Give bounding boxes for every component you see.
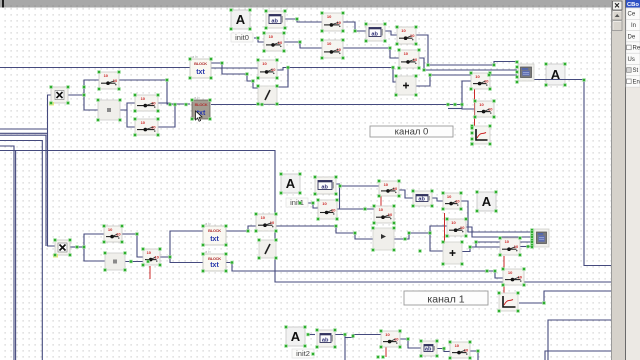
block X2 (input X)	[53, 239, 71, 258]
svg-text:a b: a b	[194, 95, 200, 100]
svg-text:10: 10	[505, 239, 510, 244]
block S2 (switch)	[321, 12, 345, 33]
block W3 (plot window)	[518, 64, 534, 81]
block D2 (divide)	[258, 239, 278, 260]
block Sk (switch)	[449, 341, 472, 360]
wire EQ1 to SWB	[120, 103, 135, 110]
block SWA (switch)	[98, 71, 121, 91]
svg-text:10: 10	[475, 74, 480, 79]
wire feedback corner y129	[0, 128, 48, 130]
block W6 (text-window)	[420, 340, 439, 358]
block X1 (input X)	[49, 86, 69, 106]
svg-text:10: 10	[447, 194, 452, 199]
wire Sc to W4	[399, 190, 413, 198]
block BTsel (BLOCK txt)	[191, 95, 212, 120]
wire Sk out down	[470, 351, 478, 360]
svg-text:ab: ab	[321, 185, 328, 191]
block SWB (switch)	[134, 94, 160, 113]
block SWG (switch)	[103, 225, 124, 244]
wire S4 to plot bus top	[416, 35, 517, 65]
svg-text:A: A	[286, 176, 296, 191]
wire feedback v x47	[48, 95, 56, 246]
block S1 (switch)	[263, 32, 286, 53]
wire X2 out	[70, 246, 84, 248]
svg-text:10: 10	[404, 51, 409, 56]
wire X1 out	[68, 80, 99, 95]
svg-text:10: 10	[262, 61, 267, 66]
wire BT3 to Si	[226, 226, 256, 231]
label init1	[286, 198, 308, 207]
svg-text:ab: ab	[322, 338, 329, 344]
block S4 (switch)	[396, 26, 418, 46]
wire SWH branch to BT4	[170, 257, 203, 263]
svg-text:Ce: Ce	[628, 12, 636, 18]
block SWC (switch)	[134, 118, 160, 137]
wire SWG out	[122, 234, 143, 257]
wire feedback loop b	[0, 141, 42, 360]
label init0	[231, 33, 253, 42]
svg-text:BLOCK: BLOCK	[195, 102, 208, 107]
svg-text:De: De	[628, 34, 636, 40]
wire B2 branch to Sc	[340, 185, 380, 187]
svg-text:10: 10	[508, 270, 513, 275]
wire X1 branch to EQ1	[84, 95, 98, 110]
svg-text:BLOCK: BLOCK	[194, 61, 207, 66]
wire red Sc to Sd	[380, 196, 382, 206]
wire main bus ch0	[211, 104, 462, 106]
block small partial	[477, 292, 487, 305]
svg-text:ab: ab	[371, 32, 378, 38]
wire bus3 branch	[476, 242, 532, 247]
wire bus to SWE	[462, 105, 475, 110]
wire SWH out to BT3	[160, 231, 203, 257]
block S5 (switch)	[398, 49, 421, 70]
svg-text:10: 10	[104, 73, 109, 78]
label kanal0	[370, 126, 453, 137]
scrollbar up arrow	[613, 11, 623, 20]
wire X2 to EQ2	[84, 247, 105, 261]
block P1 (sum)	[395, 75, 418, 97]
wire bottom bus a	[548, 320, 612, 360]
svg-text:ab: ab	[271, 19, 278, 25]
wire sum to plot bus low	[416, 75, 517, 86]
node handles W5 ports	[531, 229, 534, 247]
svg-text:10: 10	[479, 102, 484, 107]
close button	[613, 1, 623, 10]
svg-text:10: 10	[384, 182, 389, 187]
wire BB to sum2	[430, 233, 443, 251]
label kanal1	[404, 291, 488, 305]
svg-text:A: A	[236, 12, 246, 27]
mouse cursor	[196, 111, 203, 121]
wire B3 in stub	[308, 334, 315, 336]
wire S3 to S5	[343, 48, 399, 58]
wire Sj drop	[344, 338, 346, 360]
wire EQ2 out	[125, 261, 143, 263]
block A3 (font label A)	[280, 173, 302, 195]
node handles W3 ports	[516, 61, 519, 84]
node handles ch0 wire nodes	[83, 18, 586, 106]
block S9 (switch)	[502, 268, 526, 287]
block W5 (plot window)	[534, 229, 549, 247]
wire feedback loop c	[0, 146, 14, 360]
svg-text:init1: init1	[290, 198, 304, 207]
wire sum2 out	[462, 247, 500, 252]
svg-text:a b: a b	[205, 249, 211, 254]
svg-text:ab: ab	[418, 197, 425, 203]
svg-text:10: 10	[379, 207, 384, 212]
svg-text:10: 10	[108, 227, 113, 232]
top toolbar strip	[0, 0, 612, 8]
wire divider out to sum	[277, 68, 396, 88]
property panel	[625, 0, 640, 360]
wire scope2 out to edge	[519, 291, 612, 303]
block SC1 (scope)	[471, 125, 492, 146]
wire S5 to plot bus mid	[419, 58, 517, 70]
wire S2 to W2	[343, 22, 366, 31]
svg-text:10: 10	[327, 14, 332, 19]
svg-text:init2: init2	[296, 349, 310, 358]
svg-text:txt: txt	[196, 69, 205, 76]
wire S1 to S3	[284, 42, 322, 48]
svg-text:10: 10	[451, 220, 456, 225]
wire Se out bus1	[461, 201, 532, 232]
wire W4 to Se	[432, 198, 443, 201]
label init2	[292, 349, 314, 358]
svg-text:10: 10	[385, 332, 390, 337]
wire B2 out down	[336, 184, 340, 209]
svg-text:A: A	[482, 194, 492, 209]
svg-text:10: 10	[401, 28, 406, 33]
wire SWA out	[118, 80, 190, 104]
block SWD (switch)	[470, 72, 492, 91]
block Si (switch)	[255, 213, 278, 233]
block Sb (switch)	[317, 199, 339, 221]
block SWE (switch)	[474, 100, 496, 119]
block Sc (switch)	[378, 180, 401, 198]
block Sf (switch)	[446, 218, 468, 238]
svg-text:Us: Us	[628, 57, 635, 63]
wire red link ch0 stack	[474, 89, 476, 140]
block B3 (text-window)	[316, 329, 337, 349]
wire Sj out	[400, 339, 421, 348]
wire feedback loop d	[15, 151, 17, 360]
wire init0 to S1	[254, 38, 264, 42]
svg-text:txt: txt	[210, 262, 219, 269]
block BT4 (BLOCK txt)	[202, 249, 228, 272]
wire EQ1 to SWC	[127, 110, 135, 127]
block A4 (font label A)	[476, 191, 498, 213]
wire Sf out bus2	[466, 227, 532, 237]
wire S7 out	[520, 246, 532, 248]
svg-text:In: In	[631, 23, 636, 29]
svg-text:a b: a b	[205, 221, 211, 226]
wire X2 to SWG	[84, 234, 104, 247]
wire bus to SWE second	[448, 108, 462, 110]
panel rows	[626, 8, 640, 87]
block BB (gain)	[372, 227, 396, 252]
block B2 (text-window)	[314, 176, 338, 196]
wire B1 to S2	[285, 19, 322, 22]
block B1 (text-window)	[265, 10, 287, 30]
wire Sb to Sd	[337, 208, 374, 210]
block EQ2 (operation)	[104, 252, 127, 272]
svg-text:канал 0: канал 0	[395, 126, 429, 137]
wire plot out to right edge	[534, 80, 612, 266]
svg-text:Re: Re	[633, 46, 640, 52]
block A1 (font label A)	[230, 9, 252, 31]
svg-text:канал 1: канал 1	[427, 293, 464, 305]
svg-text:init0: init0	[235, 33, 249, 42]
svg-text:10: 10	[455, 343, 460, 348]
wire BT4 long out	[226, 263, 503, 279]
block D1 (divide)	[257, 85, 279, 106]
node handles ch1 wire nodes	[76, 185, 546, 305]
svg-text:CBo: CBo	[627, 2, 639, 8]
block A5 (font label A)	[285, 326, 307, 348]
wire red Sf left	[444, 213, 446, 245]
svg-text:10: 10	[322, 201, 327, 206]
wire W6 to Sk	[437, 349, 450, 352]
block Se (switch)	[442, 192, 463, 211]
wire red below SWH	[149, 266, 151, 279]
node handles SC1 ports	[471, 127, 474, 146]
wire bottom bus b	[545, 351, 612, 360]
wire Sj down red	[385, 347, 387, 357]
svg-text:10: 10	[327, 41, 332, 46]
wire W2 to S4	[385, 31, 397, 35]
wire BLOCKtxt1 to switch S6	[211, 67, 258, 69]
wire bus to SWD	[462, 81, 471, 105]
wire BB out	[394, 226, 447, 239]
wire SWB out	[158, 103, 170, 105]
svg-text:St: St	[633, 68, 639, 74]
svg-text:a b: a b	[192, 54, 198, 59]
wire BLOCKtxt1 to divider	[209, 63, 258, 88]
wire Si out	[276, 226, 373, 239]
vertical scrollbar track	[612, 0, 625, 360]
svg-text:A: A	[291, 329, 301, 344]
block EQ1 (operation)	[97, 99, 122, 122]
svg-text:10: 10	[261, 215, 266, 220]
block SC2 (scope)	[498, 292, 520, 313]
svg-text:10: 10	[269, 34, 274, 39]
block Sd (switch)	[373, 205, 396, 225]
block Sj (switch)	[380, 330, 402, 349]
wire red ch1 stack	[503, 256, 505, 293]
svg-text:txt: txt	[210, 236, 219, 243]
node handles ch2 wire nodes	[307, 333, 480, 358]
block BT1 (BLOCK txt)	[189, 54, 213, 79]
wire S6 out	[277, 68, 289, 71]
canvas right border	[611, 0, 612, 360]
wire SWC out	[158, 105, 175, 128]
block SWH (switch)	[142, 248, 162, 267]
block S7 (switch)	[499, 237, 522, 257]
block W4 (text-window)	[412, 190, 434, 208]
wire main input ch0	[0, 67, 190, 69]
block A2 (font label A) placed under wire	[545, 63, 567, 87]
panel title bar	[626, 0, 640, 8]
scrollbar thumb	[613, 21, 623, 31]
block S3 (switch)	[321, 39, 345, 60]
svg-text:ab: ab	[425, 347, 432, 353]
block W2 (text-window)	[365, 23, 387, 43]
svg-text:BLOCK: BLOCK	[208, 256, 221, 261]
svg-text:BLOCK: BLOCK	[208, 228, 221, 233]
block S6 (switch)	[257, 59, 279, 80]
svg-text:En: En	[633, 80, 640, 86]
wire init1 to Sb	[308, 203, 318, 208]
block BT3 (BLOCK txt)	[202, 221, 228, 246]
wire feedback loop a2	[0, 135, 46, 246]
svg-text:10: 10	[141, 96, 146, 101]
wire B3 to Sj	[335, 335, 381, 338]
wire feedback loop a1	[0, 132, 48, 134]
block P2 (sum)	[442, 241, 464, 266]
svg-text:10: 10	[141, 120, 146, 125]
svg-text:10: 10	[147, 250, 152, 255]
wire channel divider loop	[0, 151, 612, 283]
